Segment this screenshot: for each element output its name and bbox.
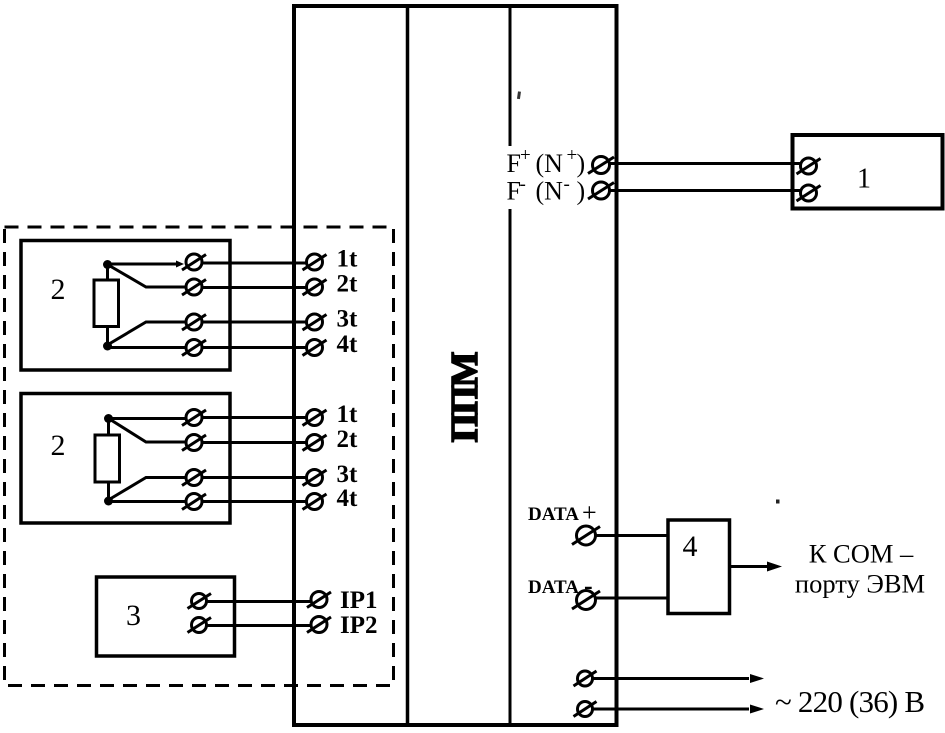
svg-text:2: 2 bbox=[51, 429, 66, 462]
terminal circle 2t panel lower bbox=[307, 435, 323, 451]
terminal circle DATA- bbox=[577, 591, 596, 610]
terminal circle 3t panel bbox=[307, 314, 323, 330]
svg-text:1t: 1t bbox=[337, 246, 359, 273]
wire node diagonal to 3t lower bbox=[110, 478, 186, 500]
svg-text:К СОМ –: К СОМ – bbox=[809, 539, 914, 569]
terminal circle F+ panel bbox=[593, 157, 610, 174]
svg-text:+: + bbox=[520, 145, 531, 166]
wire 3t inner to panel lower bbox=[202, 476, 307, 479]
svg-text:): ) bbox=[577, 149, 586, 178]
resistor RT2 lower sensing element bbox=[95, 435, 120, 482]
wire node to terminal 4t bbox=[108, 346, 187, 349]
terminal circle 1t panel lower bbox=[307, 410, 323, 426]
svg-text:IP2: IP2 bbox=[340, 612, 378, 639]
wire node to terminal 4t lower bbox=[109, 500, 187, 503]
wire 2t inner to panel lower bbox=[202, 441, 307, 444]
block 3 power source box bbox=[97, 577, 235, 656]
svg-text:ППМ: ППМ bbox=[444, 352, 486, 442]
wire 1t inner to panel lower bbox=[202, 416, 307, 419]
internal partition line 1 bbox=[406, 4, 410, 727]
wire stub resistor top to node bbox=[106, 264, 109, 280]
node junction upper-top bbox=[103, 260, 112, 269]
svg-text:(N: (N bbox=[536, 177, 564, 206]
terminal circle F+ block1 bbox=[801, 158, 817, 174]
terminal circle 1t inner lower bbox=[186, 410, 202, 426]
svg-text:1: 1 bbox=[857, 164, 871, 195]
terminal circle 2t panel bbox=[307, 279, 323, 295]
svg-text:DATA: DATA bbox=[528, 577, 579, 598]
wire node diagonal to 2t lower bbox=[111, 420, 186, 442]
terminal circle power 1 bbox=[578, 671, 593, 686]
terminal circle 3t inner bbox=[186, 314, 202, 330]
svg-text:~ 220 (36) В: ~ 220 (36) В bbox=[775, 684, 924, 719]
wire DATA+ to block 4 bbox=[596, 534, 668, 537]
node junction lower-bottom bbox=[104, 497, 113, 506]
terminal circle IP1 inner bbox=[192, 594, 207, 609]
svg-text:IP1: IP1 bbox=[340, 587, 378, 614]
label F- (N-) bbox=[507, 174, 586, 206]
wire IP1 bbox=[207, 600, 313, 603]
terminal circle IP2 panel bbox=[311, 617, 327, 633]
terminal circle 2t inner lower bbox=[186, 435, 202, 451]
svg-text:порту ЭВМ: порту ЭВМ bbox=[795, 569, 925, 599]
wire node diagonal to 3t bbox=[109, 322, 186, 344]
svg-text:1t: 1t bbox=[337, 401, 359, 428]
wire node to terminal 1t with arrowhead bbox=[108, 263, 177, 266]
dashed enclosure around sensors bbox=[5, 227, 394, 686]
resistor RT1 upper sensing element bbox=[94, 280, 119, 327]
svg-text:2: 2 bbox=[51, 273, 66, 306]
node junction lower-top bbox=[104, 414, 113, 423]
wire 3t inner to panel bbox=[202, 321, 307, 324]
terminal circle 3t panel lower bbox=[307, 470, 323, 486]
terminal circle DATA+ bbox=[577, 526, 596, 545]
svg-text:3t: 3t bbox=[337, 461, 359, 488]
svg-text:-: - bbox=[564, 174, 570, 195]
terminal circle 1t inner bbox=[186, 254, 202, 270]
node junction upper-bottom bbox=[103, 342, 112, 351]
terminal circle 3t inner lower bbox=[186, 470, 202, 486]
wire node diagonal to 2t bbox=[110, 266, 185, 287]
wire node to terminal 1t lower bbox=[109, 417, 187, 420]
svg-text:2t: 2t bbox=[337, 271, 359, 298]
terminal circle 4t inner lower bbox=[186, 494, 202, 510]
terminal circle F- block1 bbox=[801, 185, 817, 201]
block 1 frequency output device bbox=[793, 135, 943, 209]
label F+ (N+) bbox=[507, 145, 586, 178]
wire F+ to block 1 bbox=[610, 162, 802, 165]
wire power 1 with arrow bbox=[593, 677, 750, 680]
svg-text:DATA: DATA bbox=[528, 504, 579, 525]
svg-text:3: 3 bbox=[126, 599, 141, 632]
svg-text:4t: 4t bbox=[337, 485, 359, 512]
block 4 interface adapter bbox=[668, 520, 730, 614]
terminal circle 4t panel lower bbox=[307, 494, 323, 510]
terminal circle F- panel bbox=[593, 182, 610, 199]
svg-text:2t: 2t bbox=[337, 426, 359, 453]
wire 4t inner to panel lower bbox=[202, 500, 307, 503]
terminal circle 2t inner bbox=[186, 279, 202, 295]
svg-text:4: 4 bbox=[683, 530, 698, 563]
arrow block 4 to COM port bbox=[731, 565, 767, 568]
scan speck near top of right column bbox=[517, 91, 521, 99]
terminal circle 4t inner bbox=[186, 340, 202, 356]
wire IP2 bbox=[207, 624, 313, 627]
terminal circle 1t panel bbox=[307, 254, 323, 270]
wire 4t inner to panel bbox=[202, 346, 307, 349]
wire DATA- to block 4 bbox=[596, 597, 668, 600]
wire 1t inner to panel bbox=[202, 262, 307, 265]
block 2 lower sensor box bbox=[21, 394, 230, 524]
terminal circle power 2 bbox=[578, 702, 593, 717]
wire stub resistor bottom to node bbox=[106, 326, 109, 346]
block 2 upper sensor box bbox=[21, 241, 230, 371]
svg-text:3t: 3t bbox=[337, 306, 359, 333]
terminal circle IP1 panel bbox=[311, 592, 327, 608]
wire 2t inner to panel bbox=[202, 286, 307, 289]
wire stub resistor top to node lower bbox=[107, 418, 110, 435]
svg-text:-: - bbox=[520, 174, 526, 195]
terminal circle IP2 inner bbox=[192, 618, 207, 633]
terminal circle 4t panel bbox=[307, 340, 323, 356]
scan speck above COM label bbox=[776, 500, 780, 504]
internal partition line 2 lower segment bbox=[509, 209, 512, 727]
block ППМ main unit outline bbox=[294, 6, 617, 725]
internal partition line 2 upper segment bbox=[509, 4, 512, 146]
svg-text:4t: 4t bbox=[337, 331, 359, 358]
svg-text:(N: (N bbox=[536, 149, 564, 178]
svg-text:): ) bbox=[577, 177, 586, 206]
wire F- to block 1 bbox=[610, 189, 802, 192]
svg-text:+: + bbox=[582, 498, 597, 527]
wire power 2 with arrow bbox=[593, 708, 750, 711]
wire stub resistor bottom to node lower bbox=[107, 482, 110, 501]
